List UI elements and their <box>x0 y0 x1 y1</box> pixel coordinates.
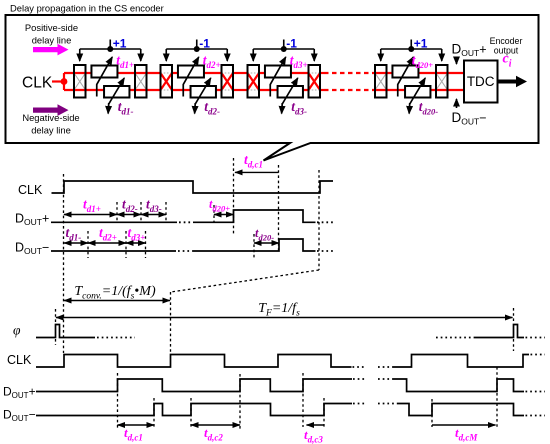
wire CLK split vertical <box>63 73 65 90</box>
waveform CLK bottom ellipsis1 <box>353 366 365 368</box>
svg-text:td1+: td1+ <box>116 53 134 71</box>
svg-text:td1+: td1+ <box>83 197 101 215</box>
crossed red wires in S2 right switch <box>222 73 234 90</box>
control down-arrow S2 right <box>226 49 228 61</box>
variable delay element d3+ arrow <box>270 57 286 97</box>
variable delay element d20- box <box>405 86 430 98</box>
dimension arrow t_d,c1 <box>118 424 155 426</box>
waveform CLK bottom right <box>393 355 529 368</box>
dimension arrow t_d,c2 <box>191 424 240 426</box>
svg-text:td20-: td20- <box>419 99 439 117</box>
svg-text:+1: +1 <box>113 37 127 51</box>
svg-text:DOUT−: DOUT− <box>3 408 36 424</box>
wire negative rail segment <box>320 89 324 91</box>
wire negative rail segment <box>259 89 309 91</box>
guide dashed c1 start <box>117 373 119 429</box>
guide dashed t_d2+/t_d3+ boundary <box>125 231 127 258</box>
svg-text:td,c1: td,c1 <box>244 152 263 170</box>
dimension arrow t_d20+ <box>214 214 234 216</box>
svg-text:CLK: CLK <box>18 183 43 197</box>
waveform CLK bottom ellipsis2 <box>378 366 393 368</box>
waveform D_OUT+ bottom left <box>36 379 352 392</box>
waveform phi ellipsis right <box>436 337 474 339</box>
control down-arrow S1 left <box>79 49 81 61</box>
control down-arrow S1 right <box>140 49 142 61</box>
svg-text:DOUT−: DOUT− <box>452 110 487 127</box>
guide dashed t_d3+ end <box>145 231 147 258</box>
variable delay element d1- arrow tail <box>107 103 110 114</box>
negative-side purple arrow <box>33 104 69 116</box>
dimension arrow t_d,c1 <box>235 171 279 173</box>
waveform CLK bottom left <box>36 355 352 368</box>
node CLK split junction <box>61 78 68 85</box>
waveform phi right <box>474 325 524 338</box>
svg-text:TDC: TDC <box>467 74 495 89</box>
wire positive rail segment <box>233 72 248 74</box>
crossed red wires in S3 left switch <box>248 73 260 90</box>
waveform phi ellipsis left <box>97 337 135 339</box>
waveform D_OUT+ middle part1 <box>51 221 177 223</box>
dimension arrow t_d,cM <box>432 424 496 426</box>
arrow D_OUT+ pointer <box>456 57 458 65</box>
dimension arrow t_d3+ <box>126 242 146 244</box>
variable delay element d20+ box <box>392 66 418 78</box>
variable delay element d1+ arrow <box>97 57 113 97</box>
variable delay element d2- arrow <box>195 78 211 104</box>
switch box S20 left <box>375 65 387 98</box>
svg-text:Negative-side: Negative-side <box>22 112 79 123</box>
guide dashed phi pulse1 <box>55 309 57 323</box>
node control dot S3 <box>281 46 287 52</box>
switch box S20 right <box>436 65 448 98</box>
svg-text:td,c3: td,c3 <box>304 427 323 444</box>
svg-text:td1-: td1- <box>118 99 134 117</box>
node control dot S2 <box>194 46 200 52</box>
dimension arrow t_d3- <box>141 214 166 216</box>
svg-text:φ: φ <box>13 323 21 338</box>
guide dashed c3 end <box>323 398 325 427</box>
waveform D_OUT- bottom ellipsis1 <box>353 403 365 405</box>
svg-text:td2-: td2- <box>122 197 138 215</box>
waveform D_OUT+ bottom ellipsis1 <box>353 378 365 380</box>
variable delay element d2- box <box>191 86 216 98</box>
dimension arrow t_d2- <box>117 214 141 216</box>
waveform phi ellipsis end <box>526 337 546 339</box>
variable delay element d2+ box <box>178 66 204 78</box>
svg-text:delay line: delay line <box>31 125 71 136</box>
svg-text:Positive-side: Positive-side <box>25 22 78 33</box>
guide dashed t_d2-/t_d3- boundary <box>140 202 142 222</box>
gray cross (unused) in S1 right switch <box>135 73 147 90</box>
gray cross (unused) in S1 left switch <box>74 73 86 90</box>
switch box S3 right <box>309 65 321 98</box>
waveform D_OUT+ middle ellipsis <box>179 221 193 223</box>
guide dashed middle window end <box>318 170 320 270</box>
wire negative rail to TDC <box>373 89 464 91</box>
svg-text:Encoder: Encoder <box>490 36 523 46</box>
svg-text:Tconv.=1/(fs•M): Tconv.=1/(fs•M) <box>74 284 156 302</box>
svg-text:td2-: td2- <box>204 99 220 117</box>
control down-arrow S20 left <box>380 49 382 61</box>
crossed red wires in S2 left switch <box>161 73 173 90</box>
waveform D_OUT- bottom right <box>398 404 524 416</box>
variable delay element d2- arrow tail <box>194 103 197 114</box>
switch box S3 left <box>248 65 260 98</box>
guide dashed cM start <box>431 399 433 427</box>
svg-text:-1: -1 <box>199 37 210 51</box>
guide dashed c2 end <box>239 374 241 429</box>
crossed red wires in S3 right switch <box>309 73 321 90</box>
variable delay element d2+ arrow <box>183 57 199 97</box>
variable delay element d1- box <box>104 86 129 98</box>
wire negative rail segment <box>64 89 161 91</box>
wire CLK stem red <box>52 80 64 82</box>
wire negative rail dashed (omitted stages) <box>324 89 373 91</box>
control down-arrow S2 left <box>165 49 167 61</box>
schematic outer box with callout pointer <box>6 15 539 161</box>
svg-text:-1: -1 <box>286 37 297 51</box>
wire positive rail segment <box>259 72 309 74</box>
svg-text:DOUT−: DOUT− <box>15 241 49 257</box>
variable delay element d20- arrow <box>410 78 426 104</box>
svg-text:CLK: CLK <box>7 353 32 367</box>
svg-text:td,c2: td,c2 <box>204 425 223 443</box>
guide dashed c1 end <box>153 398 155 429</box>
arrow D_OUT- pointer <box>456 99 458 108</box>
gray cross (unused) in S20 left switch <box>375 73 387 90</box>
wire positive rail dashed (omitted stages) <box>324 72 373 74</box>
switch box S2 right <box>222 65 234 98</box>
svg-text:td20+: td20+ <box>412 53 434 71</box>
waveform D_OUT+ middle ellipsis right <box>317 221 334 223</box>
control bracket S3 <box>253 40 314 50</box>
svg-text:TF=1/fs: TF=1/fs <box>258 301 300 319</box>
guide dashed t_d20+ start <box>213 205 215 223</box>
waveform D_OUT- middle part1 <box>51 250 176 252</box>
guide dashed c3 start <box>302 373 304 427</box>
svg-text:td2+: td2+ <box>99 225 117 243</box>
svg-text:td,c1: td,c1 <box>124 425 143 443</box>
svg-text:+1: +1 <box>414 37 428 51</box>
guide dashed t_d20- start <box>253 234 255 258</box>
waveform D_OUT- middle ellipsis right <box>317 250 334 252</box>
svg-text:td3+: td3+ <box>128 225 146 243</box>
guide dashed conversion start <box>63 174 65 353</box>
variable delay element d20+ arrow <box>398 57 414 97</box>
waveform D_OUT+ middle part2 <box>193 210 316 222</box>
guide dashed phi pulse2 <box>513 308 515 323</box>
svg-text:td3-: td3- <box>146 197 162 215</box>
wire positive rail segment <box>172 72 222 74</box>
svg-text:td20+: td20+ <box>209 197 230 214</box>
guide dashed phi pulse2 below <box>513 339 515 351</box>
variable delay element d3- arrow tail <box>281 103 284 114</box>
control bracket S1 <box>80 40 141 50</box>
waveform D_OUT+ bottom ellipsis2 <box>378 378 393 380</box>
guide dashed D_OUT+ rise <box>233 158 235 235</box>
svg-text:Delay propagation in the CS en: Delay propagation in the CS encoder <box>10 3 164 14</box>
guide dashed T_conv end <box>170 292 172 353</box>
dimension arrow t_d1- <box>64 242 88 244</box>
dimension arrow t_d1+ <box>64 214 117 216</box>
svg-text:td2+: td2+ <box>203 53 221 71</box>
guide dashed cM end <box>496 367 498 427</box>
svg-text:td3+: td3+ <box>290 53 308 71</box>
control bracket S20 <box>381 40 442 50</box>
dimension arrow t_d,c3 <box>307 424 325 426</box>
dimension arrow T_F <box>56 317 513 319</box>
svg-text:td1-: td1- <box>66 225 82 243</box>
waveform D_OUT+ bottom right <box>393 379 524 392</box>
dimension arrow T_conv <box>64 300 170 302</box>
svg-text:td20-: td20- <box>255 226 274 243</box>
variable delay element d3- arrow <box>282 78 298 104</box>
TDC block <box>464 61 498 103</box>
dimension arrow t_d20- <box>254 242 279 244</box>
guide dashed c2 start <box>190 398 192 429</box>
gray cross (unused) in S20 right switch <box>436 73 448 90</box>
svg-text:DOUT+: DOUT+ <box>452 42 487 59</box>
waveform D_OUT+ bottom ellipsis end <box>526 391 546 393</box>
encoder output thick arrow <box>498 76 527 88</box>
waveform D_OUT- middle part2 <box>193 239 316 251</box>
svg-text:td,cM: td,cM <box>455 425 478 443</box>
svg-text:td3-: td3- <box>291 99 307 117</box>
waveform D_OUT- bottom ellipsis end <box>526 415 546 417</box>
svg-text:DOUT+: DOUT+ <box>3 385 36 401</box>
guide dashed t_d3- end <box>165 202 167 222</box>
switch box S1 left <box>74 65 86 98</box>
svg-text:delay line: delay line <box>32 35 72 46</box>
variable delay element d1- arrow <box>109 78 125 104</box>
positive-side magenta arrow <box>33 44 69 56</box>
waveform phi left <box>36 325 95 338</box>
node control dot S20 <box>408 46 414 52</box>
svg-text:DOUT+: DOUT+ <box>15 212 49 228</box>
control down-arrow S3 left <box>252 49 254 61</box>
wire positive rail to TDC <box>373 72 464 74</box>
guide dashed t_d1+/t_d2- boundary <box>116 202 118 222</box>
guide dotted diagonal zoom link <box>171 270 319 292</box>
switch box S1 right <box>135 65 147 98</box>
variable delay element d3- box <box>278 86 303 98</box>
control down-arrow S3 right <box>313 49 315 61</box>
switch box S2 left <box>161 65 173 98</box>
waveform D_OUT- bottom left <box>36 404 352 416</box>
control bracket S2 <box>166 40 227 50</box>
wire negative rail segment <box>172 89 222 91</box>
wire positive rail segment <box>320 72 324 74</box>
variable delay element d1+ box <box>91 66 117 78</box>
wire positive rail segment <box>64 72 161 74</box>
variable delay element d20- arrow tail <box>408 103 411 114</box>
node control dot S1 <box>107 46 113 52</box>
variable delay element d3+ box <box>265 66 291 78</box>
waveform CLK bottom ellipsis end <box>531 354 546 356</box>
guide dashed D_OUT- rise <box>278 165 280 252</box>
control down-arrow S20 right <box>441 49 443 61</box>
waveform D_OUT- bottom ellipsis2 <box>378 403 398 405</box>
guide dashed phi pulse1 below <box>55 339 57 345</box>
waveform D_OUT- middle ellipsis <box>178 250 193 252</box>
dimension arrow t_d2+ <box>88 242 126 244</box>
waveform CLK middle <box>52 181 334 193</box>
guide dashed t_d1-/t_d2+ boundary <box>87 231 89 258</box>
svg-text:CLK: CLK <box>22 75 53 92</box>
wire negative rail segment <box>233 89 248 91</box>
